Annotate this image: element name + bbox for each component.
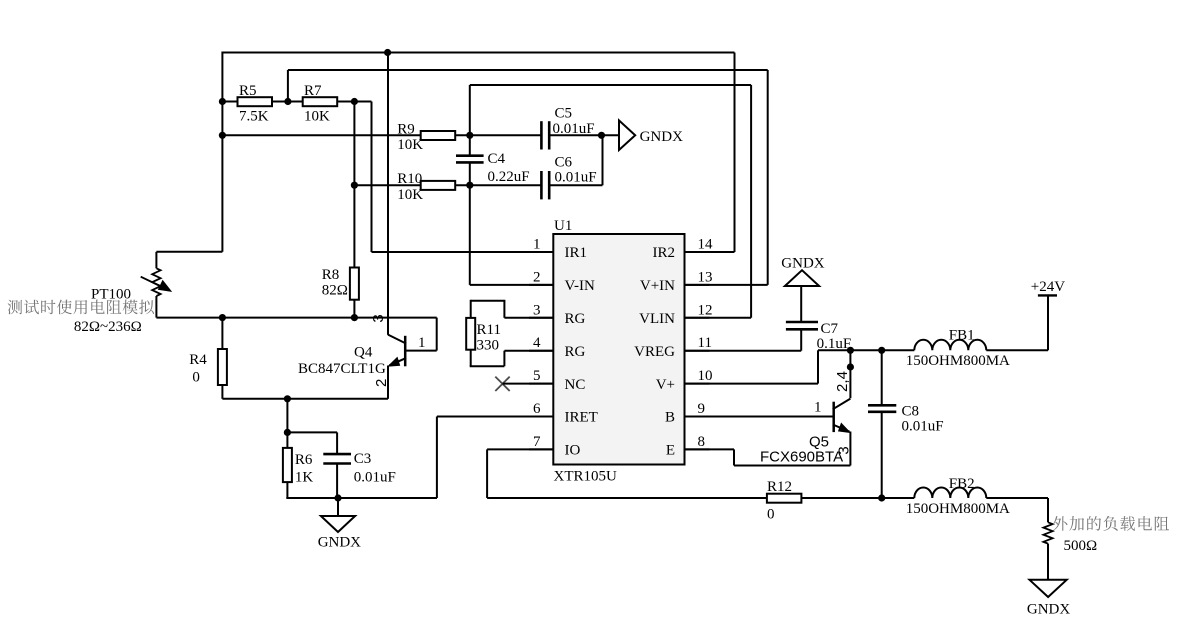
wire pin14 riser — [734, 53, 736, 253]
resistor load 500ohm — [1043, 522, 1052, 543]
svg-text:C7: C7 — [821, 321, 839, 337]
pin 7 IO — [529, 448, 553, 450]
svg-text:R12: R12 — [767, 479, 792, 495]
wire R12 to FB2 — [801, 497, 914, 499]
resistor R11 — [466, 318, 475, 350]
svg-text:R11: R11 — [477, 322, 501, 338]
svg-text:0: 0 — [767, 507, 775, 523]
power port +24V — [1038, 294, 1057, 296]
svg-text:R5: R5 — [239, 83, 257, 99]
svg-text:0: 0 — [192, 370, 200, 386]
wire FB2 to load — [986, 497, 1048, 499]
node ground junction — [334, 494, 341, 501]
svg-text:R6: R6 — [295, 452, 313, 468]
svg-text:R10: R10 — [397, 171, 422, 187]
pin 6 IRET — [529, 416, 553, 418]
resistor R4 — [221, 318, 223, 349]
svg-text:0.01uF: 0.01uF — [555, 170, 597, 186]
wire C5 to GNDX — [549, 134, 619, 136]
pin 13 V+IN — [685, 284, 710, 286]
wire FB1 to +24V — [986, 349, 1048, 351]
node R6-C3 top junction — [284, 429, 291, 436]
wire R7-R8 vertical — [353, 102, 355, 268]
node R10-C4 junction — [466, 182, 473, 189]
no-connect X pin5 — [495, 377, 509, 391]
wire IRET route — [437, 416, 553, 418]
svg-text:V+IN: V+IN — [640, 278, 675, 294]
wire R5-R7 junction riser — [287, 70, 289, 102]
svg-text:330: 330 — [477, 338, 500, 354]
sensor PT100 — [152, 268, 160, 296]
pin 3 RG — [529, 317, 553, 319]
svg-text:82Ω: 82Ω — [322, 283, 348, 299]
svg-text:10: 10 — [698, 368, 713, 384]
wire C6 up-link — [549, 184, 602, 186]
node C8 bottom junction — [878, 494, 885, 501]
wire left elbow — [156, 251, 222, 253]
svg-text:2: 2 — [533, 269, 541, 285]
svg-text:E: E — [666, 443, 675, 459]
svg-text:FB2: FB2 — [949, 476, 975, 492]
wire IO route — [487, 448, 553, 450]
capacitor C3 — [323, 453, 351, 456]
svg-text:GNDX: GNDX — [640, 129, 683, 145]
resistor R7 — [303, 97, 338, 106]
ground GNDX left — [337, 498, 339, 516]
wire second top rail — [288, 69, 768, 71]
svg-text:C6: C6 — [555, 155, 573, 171]
svg-text:13: 13 — [698, 269, 713, 285]
capacitor C4 — [469, 135, 471, 155]
power port GNDX right — [619, 120, 635, 150]
wire top net IR1/collector rail — [222, 52, 734, 54]
node R8 bottom junction — [351, 314, 358, 321]
svg-text:14: 14 — [698, 237, 714, 253]
svg-text:GNDX: GNDX — [1027, 602, 1070, 618]
svg-text:3: 3 — [533, 302, 541, 318]
node junction top rail — [384, 49, 391, 56]
transistor Q5 — [832, 402, 835, 432]
resistor R12 — [767, 494, 802, 503]
svg-text:10K: 10K — [304, 109, 330, 125]
svg-text:4: 4 — [533, 335, 541, 351]
power port GNDX up — [785, 270, 819, 286]
resistor R5 — [238, 97, 273, 106]
wire Q4 base riser — [436, 318, 438, 351]
svg-text:BC847CLT1G: BC847CLT1G — [298, 361, 386, 377]
wire emitter row — [222, 398, 388, 400]
svg-text:GNDX: GNDX — [318, 535, 361, 551]
wire R7 right lead — [337, 101, 371, 103]
wire R9 to C5 — [455, 134, 541, 136]
wire R10 to C6 — [455, 184, 541, 186]
svg-text:R4: R4 — [189, 352, 207, 368]
wire pin9 base lead — [685, 416, 834, 418]
op-amp U1 XTR105U — [553, 234, 684, 465]
svg-text:0.22uF: 0.22uF — [488, 169, 530, 185]
resistor R10 — [421, 181, 456, 190]
svg-text:VLIN: VLIN — [639, 311, 675, 327]
node R4 top junction — [219, 314, 226, 321]
pin 2 V-IN — [529, 284, 553, 286]
wire RG pin4 loop — [470, 350, 472, 367]
svg-text:150OHM800MA: 150OHM800MA — [906, 353, 1010, 369]
svg-text:B: B — [665, 410, 675, 426]
svg-text:C5: C5 — [555, 106, 573, 122]
svg-text:IRET: IRET — [565, 410, 598, 426]
svg-text:IO: IO — [565, 443, 581, 459]
svg-text:10K: 10K — [397, 137, 423, 153]
resistor R9 — [421, 131, 456, 140]
wire ground row — [286, 497, 437, 499]
pin 9 B — [685, 416, 710, 418]
ground GNDX bottom right — [1030, 580, 1067, 597]
capacitor C5 — [540, 121, 543, 149]
wire R5 left lead — [222, 101, 237, 103]
node R5 left junction — [219, 98, 226, 105]
capacitor C8 — [881, 350, 883, 405]
resistor R8 — [350, 268, 359, 300]
svg-text:3: 3 — [370, 314, 387, 322]
svg-text:2,4: 2,4 — [834, 371, 851, 392]
svg-text:1K: 1K — [295, 470, 314, 486]
wire pin1 riser — [371, 102, 373, 253]
svg-text:10K: 10K — [397, 187, 423, 203]
svg-text:7: 7 — [533, 434, 541, 450]
svg-text:82Ω~236Ω: 82Ω~236Ω — [74, 319, 142, 335]
wire base row — [156, 317, 436, 319]
pin 8 E — [685, 448, 710, 450]
svg-text:VREG: VREG — [634, 344, 675, 360]
svg-text:GNDX: GNDX — [781, 256, 824, 272]
wire pin8 emitter route — [685, 448, 735, 450]
node R9 left junction — [219, 132, 226, 139]
svg-text:IR1: IR1 — [565, 245, 588, 261]
node C8 top junction — [878, 347, 885, 354]
wire pin13 riser — [767, 70, 769, 285]
svg-text:NC: NC — [565, 377, 586, 393]
svg-text:5: 5 — [533, 368, 541, 384]
svg-text:U1: U1 — [554, 218, 572, 234]
wire VREG lead — [685, 350, 802, 352]
svg-text:R7: R7 — [304, 83, 322, 99]
node R7 right junction — [351, 98, 358, 105]
svg-text:7.5K: 7.5K — [239, 109, 269, 125]
svg-text:1: 1 — [418, 335, 426, 351]
ferrite bead FB1 — [914, 340, 986, 351]
pin 1 IR1 — [529, 251, 553, 253]
label load resistor chinese — [1053, 516, 1169, 531]
wire R8 bottom lead — [353, 300, 355, 318]
wire R6-C3 branch — [286, 399, 288, 448]
pin 10 V+ — [685, 383, 710, 385]
svg-text:9: 9 — [698, 401, 706, 417]
wire V+ lead — [685, 383, 819, 385]
wire left vertical rail — [221, 52, 223, 252]
svg-text:0.01uF: 0.01uF — [902, 419, 944, 435]
svg-text:RG: RG — [565, 344, 586, 360]
capacitor C7 — [786, 321, 818, 324]
svg-text:C3: C3 — [354, 451, 372, 467]
wire RG pin3 loop — [504, 317, 553, 319]
wire R5-R7 link — [272, 101, 303, 103]
pin 11 VREG — [685, 350, 710, 352]
svg-text:IR2: IR2 — [653, 245, 676, 261]
wire R6 bottom lead — [286, 482, 288, 498]
ferrite bead FB2 — [914, 488, 986, 498]
svg-text:FB1: FB1 — [949, 328, 975, 344]
svg-text:150OHM800MA: 150OHM800MA — [906, 501, 1010, 517]
transistor Q4 — [404, 336, 407, 367]
svg-text:500Ω: 500Ω — [1064, 538, 1098, 554]
node R6 branch junction — [284, 395, 291, 402]
svg-text:Q4: Q4 — [354, 345, 373, 361]
svg-text:12: 12 — [698, 302, 713, 318]
svg-text:1: 1 — [533, 237, 541, 253]
node R10 left junction — [351, 182, 358, 189]
svg-text:1: 1 — [814, 400, 822, 416]
node Q5 collector junction — [847, 347, 854, 354]
resistor R6 — [283, 448, 292, 482]
pin 4 RG — [529, 350, 553, 352]
pin 12 VLIN — [685, 317, 710, 319]
svg-text:C8: C8 — [902, 404, 920, 420]
svg-text:XTR105U: XTR105U — [554, 469, 618, 485]
svg-text:FCX690BTA: FCX690BTA — [760, 449, 843, 466]
node R9-C4 junction — [466, 132, 473, 139]
svg-text:RG: RG — [565, 311, 586, 327]
label PT100 note — [8, 300, 154, 315]
node Q5 collector pin junction — [847, 363, 854, 370]
svg-text:6: 6 — [533, 401, 541, 417]
svg-text:R9: R9 — [397, 122, 415, 138]
svg-text:R8: R8 — [322, 267, 340, 283]
pin 14 IR2 — [685, 251, 710, 253]
svg-text:V-IN: V-IN — [565, 278, 595, 294]
svg-text:2: 2 — [373, 379, 390, 387]
svg-text:8: 8 — [698, 434, 706, 450]
svg-text:0.01uF: 0.01uF — [354, 470, 396, 486]
wire C4 riser to V-IN — [469, 185, 471, 285]
capacitor C6 — [540, 171, 543, 199]
wire R9 left lead — [222, 134, 420, 136]
pin 5 NC — [529, 383, 553, 385]
svg-text:11: 11 — [698, 335, 712, 351]
wire pin12 riser — [750, 85, 752, 318]
svg-text:C4: C4 — [488, 151, 506, 167]
wire third top rail — [470, 84, 751, 86]
node C5-C6 junction — [598, 132, 605, 139]
node R5-R7 junction — [284, 98, 291, 105]
svg-text:+24V: +24V — [1031, 279, 1065, 295]
svg-text:V+: V+ — [656, 377, 675, 393]
wire R10 left lead — [354, 184, 420, 186]
